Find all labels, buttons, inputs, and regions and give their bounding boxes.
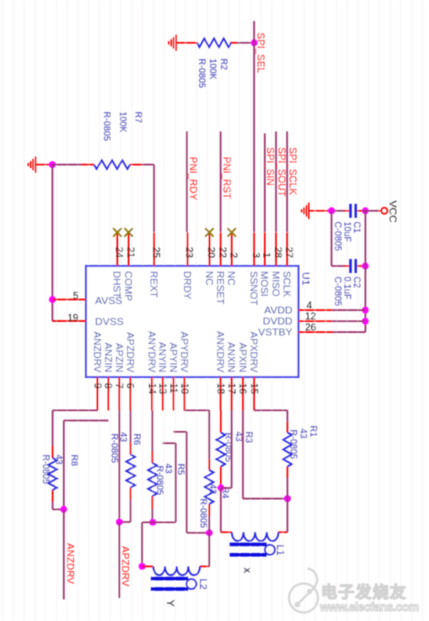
svg-text:APYIN: APYIN (167, 342, 178, 372)
node C2 right junction (362, 263, 369, 270)
svg-text:2: 2 (228, 252, 239, 258)
svg-text:20: 20 (205, 247, 216, 259)
svg-text:R-0805: R-0805 (199, 499, 209, 529)
wire R5 to Y node (151, 509, 153, 522)
resistor R4 (205, 470, 214, 504)
svg-text:REXT: REXT (147, 271, 158, 298)
U1 pin 23 (DRDY) (181, 232, 194, 299)
R4 labels (199, 484, 231, 528)
L2 label (197, 579, 208, 591)
label x (241, 568, 253, 574)
resistor R8 leads (52, 446, 54, 502)
svg-text:SPI_SCLK: SPI_SCLK (287, 147, 298, 195)
svg-text:R8: R8 (70, 455, 80, 467)
svg-text:APZIN: APZIN (113, 343, 124, 372)
node APZDRV junction (116, 519, 123, 526)
U1 pin 19 (DVSS) (52, 313, 123, 328)
wire pin16 down (243, 411, 288, 499)
svg-text:PNI_RDY: PNI_RDY (187, 157, 198, 201)
svg-text:19: 19 (67, 313, 79, 324)
R7 labels (102, 112, 144, 142)
wire C1 left down to C2 (332, 211, 345, 266)
U1 pin 10 (APYDRV) (178, 332, 189, 411)
svg-text:U1: U1 (300, 272, 312, 286)
net label SPI_SOUT (275, 147, 286, 196)
svg-text:ANYIN: ANYIN (156, 342, 167, 373)
net label PNI_RDY (187, 157, 198, 201)
C1 labels (333, 222, 362, 252)
wire pin14 to R5 (151, 411, 153, 452)
svg-text:电子发烧友: 电子发烧友 (321, 583, 407, 602)
wire PNI_RDY (186, 131, 188, 232)
wire pin7 down (118, 411, 120, 523)
svg-text:43: 43 (299, 429, 309, 439)
wire pin6 to R6 (130, 411, 132, 443)
svg-text:11: 11 (167, 383, 178, 394)
svg-text:14: 14 (146, 383, 157, 395)
U1 pin 1 (MOSI) (258, 232, 271, 296)
wire R1 to L1 node (286, 478, 288, 532)
svg-text:AVSS: AVSS (95, 295, 122, 307)
svg-text:3: 3 (250, 252, 261, 258)
wire SPI_SCLK (286, 131, 288, 232)
wire C2 right (363, 265, 366, 267)
node SPI_SEL junction (251, 39, 258, 46)
svg-text:R7: R7 (134, 112, 144, 124)
R2 labels (197, 59, 229, 89)
U1 pin 17 (ANXIN) (225, 342, 236, 411)
U1 pin 24 (DHST) (111, 228, 124, 298)
svg-text:R6: R6 (132, 434, 142, 446)
node pin12 junction (362, 318, 369, 325)
svg-text:R2: R2 (219, 59, 229, 71)
resistor R6 (126, 455, 135, 488)
U1 pin 16 (APXIN) (236, 342, 247, 410)
resistor R5 leads (151, 451, 153, 509)
wire pin9 jog (53, 410, 98, 446)
svg-text:27: 27 (283, 247, 294, 259)
net label SPI_SIN (264, 147, 275, 185)
svg-text:APZDRV: APZDRV (119, 546, 130, 587)
wire SPI_SIN (264, 133, 266, 232)
node Y-left junction (149, 519, 156, 526)
svg-text:43: 43 (208, 484, 218, 494)
wire X-row horizontal (187, 532, 210, 534)
U1 pin 18 (ANXDRV) (214, 331, 225, 411)
U1 pin 25 (REXT) (147, 232, 160, 297)
net label APZDRV (119, 546, 130, 587)
U1 pin 7 (APZIN) (113, 343, 124, 410)
ground (VCC filter) (302, 203, 316, 220)
svg-text:SCLK: SCLK (281, 271, 292, 297)
svg-text:100K: 100K (208, 59, 218, 80)
node C1 right junction (362, 207, 369, 214)
wire ground bus to AVSS/DVSS (51, 165, 53, 321)
svg-text:C1: C1 (352, 222, 362, 234)
svg-text:SSNOT: SSNOT (248, 271, 259, 305)
node R3/L1 junction (217, 484, 224, 491)
U1 pin 11 (APYIN) (167, 342, 178, 410)
node L2 left junction (139, 563, 146, 570)
svg-text:10uF: 10uF (343, 222, 353, 243)
svg-text:12: 12 (305, 312, 317, 323)
wire R7 junction to lead (52, 164, 81, 166)
node R1/L1 junction (284, 495, 291, 502)
svg-text:APXIN: APXIN (236, 342, 247, 372)
inductor L1 (229, 532, 278, 556)
VCC label (386, 201, 398, 224)
svg-text:APXDRV: APXDRV (248, 332, 259, 373)
svg-text:R-0805: R-0805 (110, 434, 120, 464)
inductor L1 leads (221, 531, 288, 533)
R8 labels (41, 455, 80, 485)
U1 pin 6 (APZDRV) (124, 332, 135, 410)
U1 pin 22 (RESET) (214, 232, 227, 304)
svg-text:100K: 100K (118, 112, 128, 133)
svg-text:C-0805: C-0805 (333, 277, 343, 307)
svg-text:0.1uF: 0.1uF (343, 277, 353, 301)
watermark (289, 569, 419, 615)
svg-text:9: 9 (91, 383, 102, 389)
wire pin8 jog (64, 421, 109, 510)
net label PNI_RST (221, 157, 232, 199)
capacitor C2 (344, 259, 363, 273)
wire pin15 jog (254, 410, 287, 422)
svg-text:x: x (241, 568, 253, 574)
resistor R7 (94, 160, 130, 169)
svg-text:22: 22 (216, 247, 227, 259)
svg-text:R-0805: R-0805 (41, 455, 51, 485)
resistor R7 leads (81, 164, 142, 166)
wire pin11 jog (174, 432, 187, 533)
svg-text:L2: L2 (197, 579, 208, 591)
R5 labels (155, 464, 186, 496)
label Y (164, 600, 176, 608)
resistor R8 (48, 458, 57, 490)
U1 pin 27 (SCLK) (281, 232, 294, 297)
resistor R1 (283, 433, 292, 467)
net label SPI_SEL (254, 33, 265, 74)
svg-text:Y: Y (164, 600, 176, 608)
node pin4 junction (362, 307, 369, 314)
wire pin10 jog (185, 410, 210, 459)
node R7/AVSS junction (49, 161, 56, 168)
wire pin12 to bus (332, 320, 366, 322)
svg-text:MISO: MISO (269, 271, 280, 297)
svg-text:7: 7 (113, 383, 124, 389)
U1 pin 20 (NC) (203, 228, 216, 285)
svg-text:MOSI: MOSI (258, 271, 269, 297)
node ANZDRV junction (60, 506, 67, 513)
svg-text:43: 43 (54, 455, 64, 465)
svg-text:ANYDRV: ANYDRV (145, 331, 156, 373)
U1 pin 12 (DVDD) (263, 312, 332, 328)
svg-text:PNI_RST: PNI_RST (221, 157, 232, 199)
svg-text:16: 16 (237, 383, 248, 395)
wire SPI_SOUT (275, 131, 277, 232)
svg-text:SPI_SEL: SPI_SEL (254, 33, 265, 74)
wire pin26 to bus (333, 331, 365, 333)
power port VCC (381, 208, 387, 214)
svg-text:www.elecfans.com: www.elecfans.com (319, 600, 419, 614)
wire R6 to APZDRV node (119, 500, 130, 523)
wire R3 node to L1 left (220, 488, 222, 532)
svg-text:6: 6 (124, 383, 135, 389)
wire R4 to L2 right (208, 516, 210, 566)
U1 pin 21 (COMP) (122, 228, 135, 301)
svg-text:ANXDRV: ANXDRV (214, 331, 225, 373)
op-amp U1 body (86, 266, 298, 377)
svg-text:23: 23 (183, 247, 194, 259)
U1 pin 26 (VSTBY) (258, 323, 333, 339)
svg-text:18: 18 (214, 383, 225, 395)
wire down to L2 left (141, 522, 143, 566)
svg-text:21: 21 (124, 247, 135, 259)
svg-text:8: 8 (102, 383, 113, 389)
svg-text:APZDRV: APZDRV (124, 332, 135, 373)
resistor R2 leads (183, 42, 237, 44)
U1 pin 2 (NC) (225, 228, 238, 285)
wire APZDRV (118, 522, 120, 598)
U1 pin 3 (SSNOT) (248, 232, 261, 305)
U1 pin 5 (AVSS) (52, 291, 122, 307)
svg-text:C2: C2 (352, 277, 362, 289)
svg-text:VCC: VCC (386, 201, 398, 224)
wire R7 to pin25 (142, 165, 154, 232)
U1 pin 28 (MISO) (269, 232, 282, 296)
resistor R6 leads (130, 443, 132, 500)
U1 pin 9 (ANZDRV) (91, 332, 102, 411)
svg-text:26: 26 (305, 323, 317, 334)
inductor L2 leads (142, 565, 209, 567)
svg-text:R-0805: R-0805 (155, 466, 165, 496)
svg-text:COMP: COMP (122, 271, 133, 301)
inductor L2 (151, 566, 200, 590)
net label SPI_SCLK (287, 147, 298, 195)
wire pin4 to bus (332, 309, 366, 311)
svg-text:25: 25 (150, 247, 161, 259)
U1 pin 13 (ANYIN) (156, 342, 167, 411)
U1 designator (300, 272, 312, 286)
resistor R3 leads (220, 411, 222, 488)
wire ANZDRV (63, 509, 65, 599)
svg-text:5: 5 (73, 291, 79, 302)
svg-text:APYDRV: APYDRV (178, 332, 189, 373)
svg-text:SPI_SIN: SPI_SIN (264, 147, 275, 185)
svg-text:R-0805: R-0805 (102, 112, 112, 142)
svg-text:ANZDRV: ANZDRV (64, 543, 75, 584)
svg-text:NC: NC (203, 271, 214, 285)
U1 pin 14 (ANYDRV) (145, 331, 156, 411)
node C1 left junction (328, 207, 335, 214)
wire gnd to C1 (316, 210, 344, 212)
svg-text:R-0805: R-0805 (197, 59, 207, 89)
svg-text:DVSS: DVSS (95, 316, 124, 328)
svg-text:R5: R5 (176, 464, 186, 476)
R6 labels (110, 432, 143, 463)
U1 pin 15 (APXDRV) (248, 332, 259, 411)
capacitor C1 (344, 204, 363, 218)
wire pin17 jog (221, 411, 232, 488)
svg-text:24: 24 (113, 247, 124, 259)
wire PNI_RST (220, 131, 222, 232)
wire R2 to SPI_SEL node (237, 42, 254, 44)
resistor R5 (148, 463, 157, 496)
wire SPI_SEL vertical (253, 21, 255, 232)
svg-text:NC: NC (225, 271, 236, 285)
svg-text:ANZIN: ANZIN (102, 343, 113, 373)
svg-text:R1: R1 (309, 426, 319, 438)
svg-text:13: 13 (157, 383, 168, 395)
ground (top, R2) (169, 35, 183, 52)
U1 pin 4 (AVDD) (264, 301, 332, 317)
svg-text:C-0805: C-0805 (333, 222, 343, 252)
node AVSS junction (49, 296, 56, 303)
resistor R1 leads (286, 422, 288, 478)
L1 label (274, 545, 285, 557)
wire gnd to R7 junction (43, 164, 53, 166)
wire VCC bus down (364, 211, 366, 332)
svg-text:DRDY: DRDY (181, 271, 192, 300)
ground (R7) (28, 156, 42, 173)
wire C1 to VCC (363, 210, 382, 212)
resistor R3 (216, 433, 225, 467)
svg-text:ANZDRV: ANZDRV (91, 332, 102, 373)
svg-text:1: 1 (261, 252, 272, 258)
svg-text:L1: L1 (274, 545, 285, 557)
node R4/L2 junction (206, 529, 213, 536)
wire AVSS stub link (52, 320, 60, 322)
svg-text:4: 4 (307, 301, 313, 312)
R3 labels (224, 432, 255, 463)
svg-text:28: 28 (272, 247, 283, 259)
resistor R4 leads (208, 459, 210, 516)
svg-text:17: 17 (225, 383, 236, 395)
net label ANZDRV (64, 543, 75, 584)
svg-text:R-0805: R-0805 (289, 430, 299, 460)
R1 labels (289, 426, 319, 460)
svg-text:SPI_SOUT: SPI_SOUT (275, 147, 286, 196)
wire pin13 jog (163, 443, 176, 522)
wire Y horizontal (142, 521, 176, 523)
svg-text:RESET: RESET (214, 271, 225, 304)
svg-text:ANXIN: ANXIN (225, 342, 236, 373)
U1 pin 8 (ANZIN) (102, 343, 113, 411)
resistor R2 (197, 38, 231, 47)
svg-text:10: 10 (178, 383, 189, 395)
svg-text:VSTBY: VSTBY (258, 326, 292, 338)
wire R8 to ANZDRV node (53, 502, 64, 509)
svg-text:15: 15 (248, 383, 259, 395)
svg-text:R3: R3 (244, 432, 254, 444)
C2 labels (333, 277, 362, 307)
